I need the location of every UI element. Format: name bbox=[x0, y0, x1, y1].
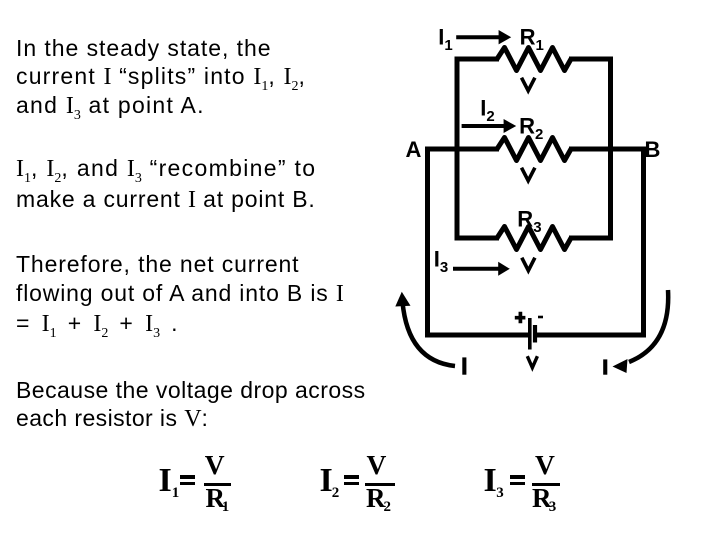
battery V label bbox=[527, 356, 537, 368]
label I right bbox=[603, 359, 607, 374]
svg-text:A: A bbox=[406, 137, 422, 162]
wire R3 right segment bbox=[569, 236, 611, 241]
label V across R3 bbox=[522, 258, 535, 271]
wire outer right vertical bbox=[641, 147, 646, 338]
label R3 bbox=[517, 207, 541, 237]
current arrow I1 bbox=[456, 30, 511, 44]
label R2 bbox=[519, 114, 543, 144]
paragraph 1 bbox=[16, 34, 306, 120]
svg-text:B: B bbox=[645, 137, 661, 162]
wire inner-left bottom segment bbox=[457, 236, 499, 241]
wire inner left vertical bbox=[455, 57, 460, 241]
paragraph 3 bbox=[16, 250, 344, 339]
label V across R1 bbox=[522, 78, 535, 91]
equation I2 = V / R2 bbox=[0, 0, 1, 1]
label R1 bbox=[520, 24, 544, 54]
paragraph 4 bbox=[16, 376, 366, 433]
wire A to R2 left bbox=[425, 147, 499, 152]
wire bottom left of battery bbox=[425, 333, 528, 338]
resistor R3 bbox=[497, 227, 571, 250]
battery V negative plate bbox=[533, 325, 537, 343]
equation I1 = V / R1 bbox=[0, 0, 1, 1]
label V across R2 bbox=[522, 168, 535, 181]
battery plus sign bbox=[515, 312, 526, 324]
wire inner-left top segment bbox=[457, 57, 499, 62]
svg-text:I3: I3 bbox=[434, 246, 448, 276]
label I2 bbox=[480, 96, 494, 126]
wire R1 right segment bbox=[569, 57, 611, 62]
resistor R2 bbox=[497, 138, 571, 161]
wire inner right vertical bbox=[608, 57, 613, 241]
battery V positive plate bbox=[528, 318, 532, 350]
curved return arrow right bbox=[613, 290, 669, 373]
equation I3 = V / R3 bbox=[0, 0, 1, 1]
battery minus sign bbox=[538, 316, 543, 319]
svg-text:I1: I1 bbox=[438, 24, 452, 54]
label I3 bbox=[434, 246, 448, 276]
svg-text:I2: I2 bbox=[480, 96, 494, 126]
current arrow I3 bbox=[453, 262, 510, 276]
label I left bbox=[462, 357, 466, 374]
wire bottom right of battery bbox=[537, 333, 646, 338]
resistor R1 bbox=[497, 48, 571, 71]
current arrow I2 bbox=[462, 119, 517, 133]
paragraph 2 bbox=[16, 153, 316, 215]
wire outer left vertical bbox=[425, 147, 430, 338]
node A label bbox=[406, 137, 422, 162]
node B label bbox=[645, 137, 661, 162]
curved return arrow left bbox=[395, 292, 455, 366]
wire R2 right to B bbox=[569, 147, 645, 152]
label I1 bbox=[438, 24, 452, 54]
